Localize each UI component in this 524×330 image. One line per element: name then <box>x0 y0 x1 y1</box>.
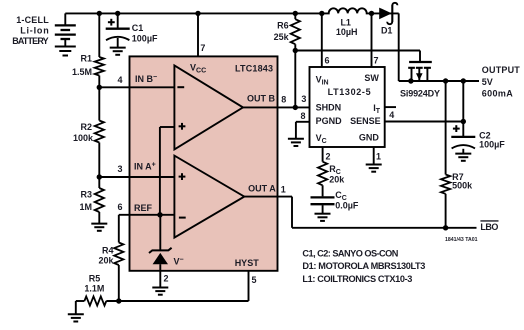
svg-text:3: 3 <box>117 164 122 174</box>
svg-text:100µF: 100µF <box>479 140 505 150</box>
svg-text:2: 2 <box>326 152 331 162</box>
svg-text:SHDN: SHDN <box>316 102 342 112</box>
svg-text:R1: R1 <box>80 54 92 64</box>
svg-text:5V: 5V <box>482 77 493 87</box>
svg-text:1M: 1M <box>79 202 92 212</box>
svg-text:C1: C1 <box>132 23 144 33</box>
svg-text:LT1302-5: LT1302-5 <box>328 87 371 97</box>
svg-text:100k: 100k <box>73 133 94 143</box>
svg-text:7: 7 <box>374 55 379 65</box>
svg-text:R6: R6 <box>277 20 289 30</box>
svg-text:OUT A: OUT A <box>248 183 276 193</box>
svg-text:Si9924DY: Si9924DY <box>400 89 440 99</box>
svg-text:SENSE: SENSE <box>350 116 381 126</box>
svg-text:8: 8 <box>300 111 305 121</box>
svg-text:L1: L1 <box>340 17 351 27</box>
svg-text:PGND: PGND <box>316 116 343 126</box>
svg-text:5: 5 <box>252 275 257 285</box>
svg-text:R2: R2 <box>80 122 92 132</box>
svg-text:25k: 25k <box>274 32 290 42</box>
svg-text:R3: R3 <box>80 190 92 200</box>
svg-text:3: 3 <box>301 94 306 104</box>
svg-text:OUT B: OUT B <box>247 94 275 104</box>
svg-text:0.0µF: 0.0µF <box>335 201 359 211</box>
svg-text:4: 4 <box>389 110 394 120</box>
svg-text:8: 8 <box>281 95 286 105</box>
svg-text:500k: 500k <box>452 181 473 191</box>
svg-text:1.1M: 1.1M <box>84 284 104 294</box>
svg-text:OUTPUT: OUTPUT <box>482 65 521 75</box>
svg-text:BATTERY: BATTERY <box>12 36 48 46</box>
svg-text:L1: COILTRONICS CTX10-3: L1: COILTRONICS CTX10-3 <box>302 274 412 284</box>
svg-text:1: 1 <box>376 152 381 162</box>
svg-text:GND: GND <box>359 133 380 143</box>
svg-text:20k: 20k <box>329 174 345 184</box>
svg-text:SW: SW <box>364 73 379 83</box>
svg-text:2: 2 <box>164 274 169 284</box>
svg-text:Li-Ion: Li-Ion <box>20 25 48 35</box>
svg-text:1841/43 TA01: 1841/43 TA01 <box>445 237 478 243</box>
svg-text:REF: REF <box>134 203 153 213</box>
svg-text:10µH: 10µH <box>336 27 358 37</box>
svg-text:1.5M: 1.5M <box>72 67 92 77</box>
svg-text:LTC1843: LTC1843 <box>235 64 273 74</box>
svg-text:HYST: HYST <box>235 258 260 268</box>
svg-text:D1: D1 <box>381 26 393 36</box>
svg-text:600mA: 600mA <box>482 88 514 98</box>
svg-text:1-CELL: 1-CELL <box>16 15 49 25</box>
svg-text:R4: R4 <box>102 245 114 255</box>
svg-text:20k: 20k <box>98 256 114 266</box>
svg-text:4: 4 <box>117 75 122 85</box>
svg-text:7: 7 <box>200 43 205 53</box>
svg-text:1: 1 <box>281 184 286 194</box>
svg-text:R5: R5 <box>89 273 101 283</box>
svg-text:D1: MOTOROLA MBRS130LT3: D1: MOTOROLA MBRS130LT3 <box>302 261 425 271</box>
svg-text:LBO: LBO <box>480 222 498 232</box>
svg-text:6: 6 <box>325 55 330 65</box>
svg-text:6: 6 <box>117 202 122 212</box>
svg-text:100µF: 100µF <box>132 34 158 44</box>
svg-text:C1, C2: SANYO OS-CON: C1, C2: SANYO OS-CON <box>302 248 398 258</box>
